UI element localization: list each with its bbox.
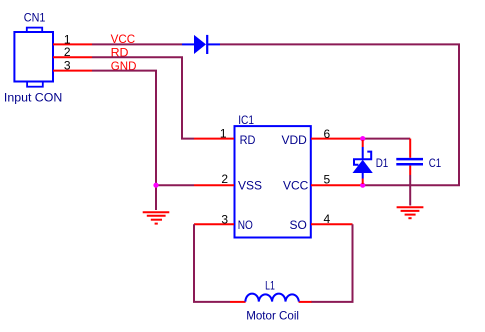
svg-text:VDD: VDD (282, 133, 308, 147)
connector CN1 body (14, 32, 53, 82)
zener D1 top pin (362, 140, 364, 147)
series diode (unlabeled) cathode bar (206, 35, 208, 54)
wire IC pin3 down to motor loop (194, 224, 230, 302)
svg-text:3: 3 (221, 212, 228, 226)
series diode (unlabeled) triangle (194, 35, 206, 54)
wire VDD node to C1 (363, 138, 410, 140)
CN1 pin 2 stub (53, 56, 92, 58)
junction dot VDD node (360, 136, 365, 141)
IC pin 5 stub (311, 184, 363, 186)
svg-text:VSS: VSS (238, 178, 262, 192)
svg-text:Motor Coil: Motor Coil (246, 309, 299, 323)
svg-text:2: 2 (221, 172, 228, 186)
connector CN1 bottom tab (27, 82, 43, 87)
inductor L1 coil (245, 294, 298, 302)
connector CN1 top tab (27, 28, 42, 32)
zener D1 triangle (353, 160, 373, 173)
svg-text:IC1: IC1 (238, 113, 254, 127)
svg-text:SO: SO (290, 218, 307, 232)
wire GND from CN1 pin3 down to VSS node (92, 71, 156, 186)
IC pin 6 stub (311, 138, 363, 140)
ground symbol left (143, 212, 170, 223)
zener D1 cathode lead (362, 147, 364, 159)
inductor L1 left pin (230, 301, 246, 303)
series diode (unlabeled) anode lead (182, 43, 194, 45)
svg-text:C1: C1 (429, 156, 442, 170)
svg-text:L1: L1 (265, 279, 275, 293)
ground symbol right (397, 207, 424, 218)
svg-text:6: 6 (324, 127, 331, 141)
capacitor C1 bottom pin (409, 166, 411, 175)
zener D1 cathode bar with bends (354, 152, 371, 165)
CN1 pin 1 stub (53, 43, 92, 45)
svg-text:3: 3 (64, 59, 71, 73)
CN1 pin 3 stub (53, 70, 92, 72)
wire VCC net: CN1 pin1 to series diode (92, 43, 182, 45)
svg-text:2: 2 (64, 45, 71, 59)
zener D1 anode lead (362, 173, 364, 179)
IC pin 3 stub (194, 223, 234, 225)
wire VSS node to IC pin2 (156, 184, 194, 186)
svg-text:1: 1 (64, 32, 71, 46)
junction dot VCC node (360, 183, 365, 188)
IC pin 4 stub (311, 223, 353, 225)
svg-text:CN1: CN1 (24, 10, 46, 24)
svg-text:VCC: VCC (283, 178, 309, 192)
IC pin 1 stub (194, 138, 234, 140)
capacitor C1 top pin (409, 139, 411, 158)
svg-text:NO: NO (238, 218, 253, 232)
svg-text:RD: RD (240, 133, 256, 147)
zener D1 bottom pin (362, 179, 364, 185)
wire VCC from diode to top-right corner (220, 44, 459, 185)
IC pin 2 stub (194, 184, 234, 186)
wire RD from CN1 pin2 down to IC pin1 (92, 57, 194, 138)
svg-text:5: 5 (324, 172, 331, 186)
capacitor C1 bottom plate (396, 163, 423, 166)
svg-text:1: 1 (220, 127, 227, 141)
junction dot VSS node (153, 183, 158, 188)
inductor L1 right pin (299, 301, 312, 303)
svg-text:D1: D1 (376, 156, 389, 170)
wire C1 to ground (409, 175, 411, 206)
series diode (unlabeled) cathode lead (208, 43, 220, 45)
svg-text:Input CON: Input CON (4, 91, 62, 105)
capacitor C1 top plate (396, 158, 423, 161)
wire VSS node down to ground (155, 185, 157, 210)
op-amp/IC IC1 body (235, 126, 311, 237)
wire IC pin4 down to motor loop (311, 224, 353, 302)
svg-text:4: 4 (324, 212, 331, 226)
